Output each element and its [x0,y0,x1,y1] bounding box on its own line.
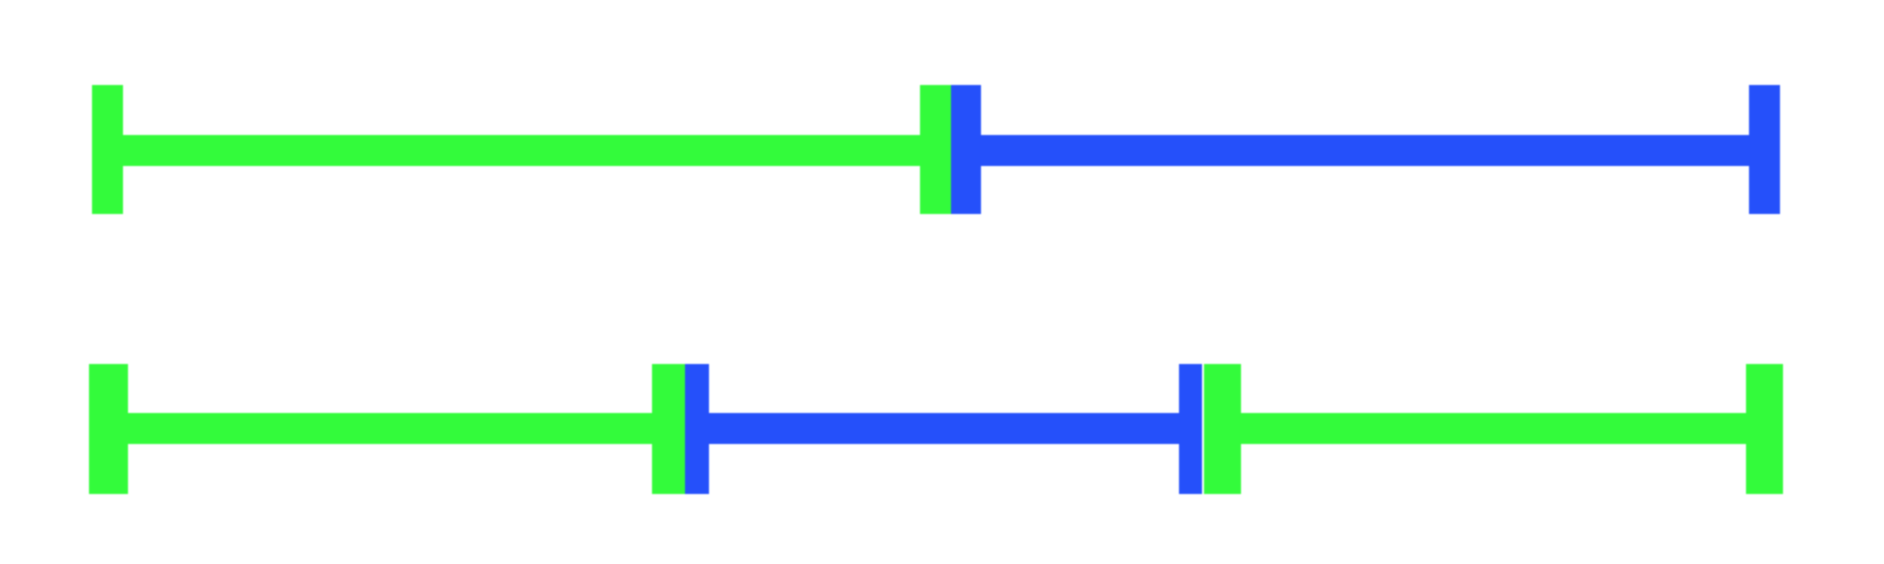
row1 green interval bar [92,135,951,166]
row2 blue interval right cap [1179,364,1203,494]
row2 green interval 1 bar [89,413,685,444]
row2 green interval 2 bar [1204,413,1783,444]
row1 blue interval bar [951,135,1780,166]
row1 green interval left cap [92,85,123,214]
row2 green interval 2 left cap [1204,364,1240,494]
row2 green interval 1 left cap [89,364,128,494]
row2 green interval 2 right cap [1746,364,1783,494]
row1 blue interval right cap [1749,85,1780,214]
row1 blue interval left cap [951,85,981,214]
row2 blue interval left cap [685,364,709,494]
row1 green interval right cap [920,85,951,214]
row2 blue interval bar [685,413,1202,444]
row2 green interval 1 right cap [652,364,685,494]
